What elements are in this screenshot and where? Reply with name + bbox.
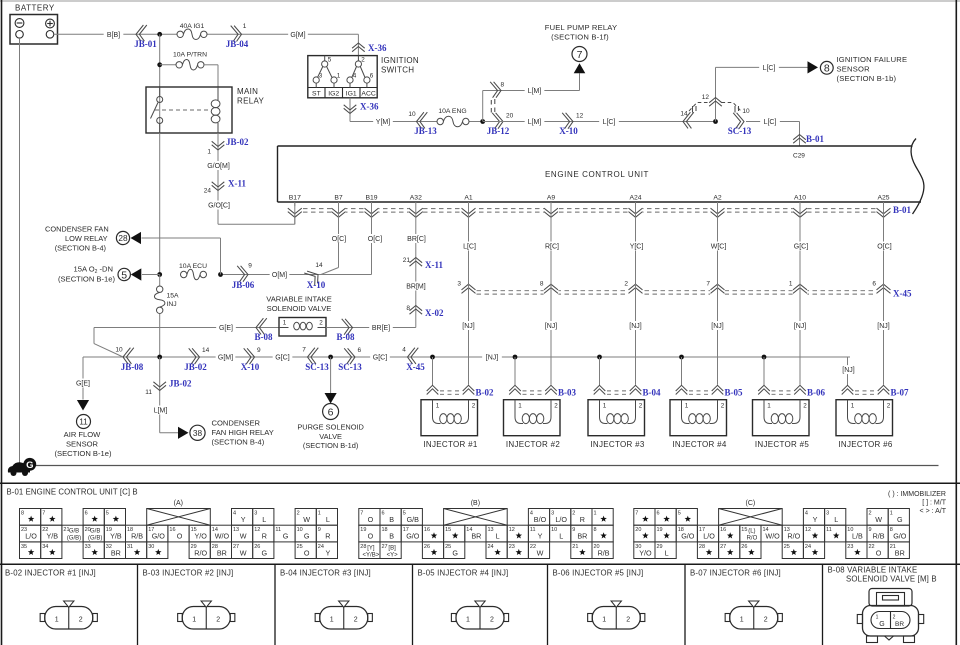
svg-text:G[C]: G[C] [794,244,808,251]
svg-text:A1: A1 [464,195,473,202]
svg-text:FUEL PUMP RELAY: FUEL PUMP RELAY [545,23,618,32]
svg-text:JB-01: JB-01 [134,39,157,49]
svg-text:4: 4 [233,511,236,517]
svg-text:BR: BR [217,548,227,557]
svg-text:O: O [876,548,882,557]
svg-text:G/O[C]: G/O[C] [208,203,230,210]
svg-text:A9: A9 [547,195,556,202]
svg-text:G: G [26,460,33,471]
svg-text:2: 2 [624,281,628,288]
svg-text:L/B: L/B [852,532,863,541]
svg-text:8: 8 [21,511,24,517]
svg-text:W: W [875,515,882,524]
svg-text:10: 10 [297,527,303,533]
svg-text:11: 11 [79,416,88,426]
svg-text:G/O: G/O [152,532,166,541]
svg-text:G: G [897,515,903,524]
svg-text:BR: BR [471,532,481,541]
svg-text:BR[C]: BR[C] [407,236,426,243]
svg-text:L: L [834,515,838,524]
svg-text:PURGE SOLENOID: PURGE SOLENOID [297,423,364,432]
svg-text:ACC: ACC [361,90,375,97]
svg-text:15A O2 -DN: 15A O2 -DN [74,265,114,276]
svg-text:W/O: W/O [215,532,230,541]
svg-text:L[M]: L[M] [528,119,542,126]
svg-text:18: 18 [382,527,388,533]
svg-text:38: 38 [193,428,203,438]
svg-text:< > : A/T: < > : A/T [920,508,947,515]
svg-text:16: 16 [720,527,726,533]
svg-text:23: 23 [847,544,853,550]
svg-text:12: 12 [702,94,710,101]
svg-text:20: 20 [635,527,641,533]
svg-text:B-05 INJECTOR #4 [INJ]: B-05 INJECTOR #4 [INJ] [418,569,509,578]
svg-text:BR[E]: BR[E] [372,325,390,332]
svg-text:21: 21 [403,257,411,264]
svg-text:11: 11 [826,527,832,533]
svg-text:L[C]: L[C] [764,119,777,126]
svg-text:G/O: G/O [406,532,420,541]
svg-text:ENGINE CONTROL UNIT: ENGINE CONTROL UNIT [545,170,649,179]
svg-text:25: 25 [445,544,451,550]
svg-text:L[C]: L[C] [463,244,476,251]
svg-text:SC-13: SC-13 [305,362,329,372]
svg-text:R: R [580,515,585,524]
svg-text:<Y>: <Y> [387,552,399,558]
svg-text:JB-02: JB-02 [169,379,192,389]
svg-text:33: 33 [85,544,91,550]
svg-text:B: B [389,532,394,541]
svg-text:FAN HIGH RELAY: FAN HIGH RELAY [212,428,274,437]
svg-text:14: 14 [202,347,210,354]
svg-text:[NJ]: [NJ] [545,323,558,330]
svg-text:INJECTOR #2: INJECTOR #2 [506,440,561,449]
svg-text:[NJ]: [NJ] [629,323,642,330]
svg-text:5: 5 [403,511,406,517]
svg-text:[NJ]: [NJ] [711,323,724,330]
svg-text:25: 25 [297,544,303,550]
svg-text:7: 7 [360,511,363,517]
svg-text:JB-12: JB-12 [487,126,510,136]
svg-text:A24: A24 [629,195,641,202]
svg-text:8: 8 [540,281,544,288]
svg-text:BATTERY: BATTERY [15,4,55,13]
svg-text:( ) : IMMOBILIZER: ( ) : IMMOBILIZER [888,491,946,498]
svg-text:26: 26 [424,544,430,550]
svg-text:B-04 INJECTOR #3 [INJ]: B-04 INJECTOR #3 [INJ] [280,569,371,578]
svg-text:11: 11 [145,389,152,396]
svg-text:15: 15 [445,527,451,533]
svg-text:[NJ]: [NJ] [462,323,475,330]
svg-text:INJECTOR #4: INJECTOR #4 [672,440,727,449]
svg-text:1: 1 [436,403,440,410]
svg-text:O: O [304,548,310,557]
svg-text:O[C]: O[C] [332,236,346,243]
svg-text:L[M]: L[M] [154,408,168,415]
svg-text:X-10: X-10 [307,280,326,290]
svg-text:2: 2 [472,403,476,410]
svg-text:R/B: R/B [131,532,143,541]
svg-text:R/B: R/B [873,532,885,541]
svg-text:6: 6 [382,511,385,517]
svg-text:28: 28 [699,544,705,550]
svg-text:2: 2 [893,615,896,621]
svg-text:G/B: G/B [69,529,79,535]
svg-text:CONDENSER: CONDENSER [212,419,261,428]
svg-text:4: 4 [805,511,808,517]
svg-text:7: 7 [42,511,45,517]
svg-text:2: 2 [572,511,575,517]
svg-text:(SECTION B-4): (SECTION B-4) [212,438,265,447]
svg-text:6: 6 [872,281,876,288]
svg-text:(B): (B) [471,500,480,507]
svg-text:B-01: B-01 [893,205,912,215]
svg-text:G: G [262,548,268,557]
svg-text:G/O: G/O [681,532,695,541]
svg-text:12: 12 [509,527,515,533]
svg-text:B-03: B-03 [558,388,577,398]
svg-text:2: 2 [216,617,220,624]
svg-text:L: L [559,532,563,541]
svg-text:15: 15 [741,527,747,533]
svg-text:G: G [452,548,458,557]
svg-text:BR: BR [577,532,587,541]
svg-text:MAIN: MAIN [237,87,258,96]
svg-text:L/O: L/O [555,515,567,524]
svg-text:BR: BR [111,548,121,557]
svg-text:15A: 15A [167,293,180,300]
svg-text:L: L [262,515,266,524]
svg-text:1: 1 [243,23,247,30]
svg-text:X-11: X-11 [425,260,444,270]
svg-text:AIR FLOW: AIR FLOW [64,430,102,439]
svg-text:B-06: B-06 [807,388,826,398]
svg-text:34: 34 [42,544,48,550]
svg-text:VALVE: VALVE [319,432,342,441]
svg-text:5: 5 [121,269,127,281]
svg-text:B-07: B-07 [891,388,910,398]
svg-text:C29: C29 [793,153,805,160]
svg-text:G[M]: G[M] [290,32,305,39]
svg-text:JB-13: JB-13 [414,126,437,136]
svg-text:R/O: R/O [194,548,207,557]
svg-text:9: 9 [572,527,575,533]
svg-text:27: 27 [720,544,726,550]
svg-text:[NJ]: [NJ] [877,323,890,330]
svg-text:3: 3 [254,511,257,517]
svg-text:28: 28 [360,544,366,550]
svg-text:28: 28 [118,233,128,243]
svg-text:3: 3 [457,281,461,288]
svg-text:2: 2 [319,320,323,327]
svg-text:[Y]: [Y] [367,545,375,551]
svg-text:12: 12 [254,527,260,533]
svg-text:(C): (C) [746,500,756,507]
svg-text:G[C]: G[C] [373,355,387,362]
svg-text:10A ECU: 10A ECU [179,263,207,270]
svg-text:5: 5 [106,511,109,517]
svg-text:26: 26 [741,544,747,550]
svg-text:4: 4 [402,347,406,354]
svg-text:Y/O: Y/O [639,548,652,557]
svg-text:JB-04: JB-04 [226,39,249,49]
svg-text:2: 2 [869,511,872,517]
svg-text:R/O: R/O [747,536,758,542]
svg-text:1: 1 [876,615,879,621]
svg-text:(SECTION B-1e): (SECTION B-1e) [55,449,112,458]
svg-text:2: 2 [803,403,807,410]
svg-text:4: 4 [530,511,533,517]
svg-text:X-10: X-10 [241,362,260,372]
svg-text:1: 1 [594,511,597,517]
svg-text:Y/B: Y/B [110,532,122,541]
svg-text:2: 2 [639,403,643,410]
svg-text:A10: A10 [794,195,806,202]
svg-text:1: 1 [192,617,196,624]
svg-text:24: 24 [318,544,324,550]
svg-text:B7: B7 [334,195,343,202]
svg-text:G/O[M]: G/O[M] [207,163,230,170]
svg-text:21: 21 [572,544,578,550]
svg-text:[B]: [B] [388,545,396,551]
svg-text:BR[M]: BR[M] [406,284,426,291]
svg-text:B-08 VARIABLE INTAKE: B-08 VARIABLE INTAKE [828,566,918,575]
svg-text:1: 1 [890,511,893,517]
svg-text:G: G [283,532,289,541]
svg-text:W: W [240,532,247,541]
svg-text:IG2: IG2 [328,90,339,97]
svg-text:11: 11 [275,527,281,533]
svg-text:X-45: X-45 [406,362,425,372]
svg-text:8: 8 [824,63,830,75]
svg-text:13: 13 [488,527,494,533]
svg-text:1: 1 [767,403,771,410]
svg-text:X-36: X-36 [360,102,379,112]
svg-text:Y[C]: Y[C] [630,244,644,251]
svg-text:25: 25 [784,544,790,550]
svg-text:3: 3 [826,511,829,517]
svg-text:24: 24 [805,544,811,550]
svg-text:6: 6 [370,73,374,80]
svg-text:1: 1 [207,149,211,156]
svg-text:LOW RELAY: LOW RELAY [65,234,108,243]
svg-text:2: 2 [361,57,365,64]
svg-text:5: 5 [678,511,681,517]
svg-text:SWITCH: SWITCH [381,66,414,75]
svg-text:G[C]: G[C] [275,355,289,362]
svg-text:W: W [537,548,544,557]
svg-text:24: 24 [488,544,494,550]
svg-text:13: 13 [233,527,239,533]
svg-text:10: 10 [742,108,750,115]
svg-text:14: 14 [315,262,323,269]
svg-text:16: 16 [169,527,175,533]
svg-text:3: 3 [551,511,554,517]
svg-text:X-36: X-36 [368,43,387,53]
svg-text:(SECTION B-1d): (SECTION B-1d) [303,441,358,450]
svg-text:7: 7 [635,511,638,517]
svg-text:27: 27 [382,544,388,550]
svg-text:X-11: X-11 [228,179,247,189]
svg-text:X-10: X-10 [559,126,578,136]
svg-text:A25: A25 [877,195,889,202]
svg-text:19: 19 [657,527,663,533]
svg-text:JB-08: JB-08 [121,362,144,372]
svg-text:2: 2 [887,403,891,410]
svg-text:G/O: G/O [893,532,907,541]
svg-text:L: L [665,548,669,557]
svg-text:L[C]: L[C] [763,65,776,72]
svg-text:SC-13: SC-13 [338,362,362,372]
svg-text:IGNITION: IGNITION [381,56,419,65]
svg-text:6: 6 [358,347,362,354]
svg-text:O: O [368,532,374,541]
svg-text:(A): (A) [174,500,183,507]
svg-text:Y: Y [326,548,331,557]
svg-text:B-02: B-02 [476,388,495,398]
svg-text:B-05: B-05 [725,388,744,398]
svg-text:B-01 ENGINE CONTROL UNIT [C] B: B-01 ENGINE CONTROL UNIT [C] B [7,488,138,497]
svg-text:B-03 INJECTOR #2 [INJ]: B-03 INJECTOR #2 [INJ] [143,569,234,578]
svg-text:1: 1 [603,403,607,410]
svg-text:1: 1 [740,617,744,624]
svg-text:L[C]: L[C] [603,119,616,126]
svg-text:X-45: X-45 [893,289,912,299]
svg-text:JB-02: JB-02 [226,137,249,147]
svg-text:X-02: X-02 [425,308,444,318]
svg-text:JB-06: JB-06 [232,280,255,290]
svg-text:2: 2 [721,403,725,410]
svg-text:B[B]: B[B] [107,32,120,39]
svg-text:40A IG1: 40A IG1 [180,23,205,30]
svg-text:16: 16 [424,527,430,533]
svg-text:Y/B: Y/B [47,532,59,541]
svg-text:2: 2 [79,617,83,624]
svg-text:31: 31 [127,544,133,550]
svg-text:2: 2 [764,617,768,624]
svg-text:10A P/TRN: 10A P/TRN [173,52,207,59]
svg-text:VARIABLE INTAKE: VARIABLE INTAKE [266,295,332,304]
svg-text:[NJ]: [NJ] [794,323,807,330]
svg-text:L[M]: L[M] [528,88,542,95]
svg-text:R: R [262,532,267,541]
svg-text:(SECTION B-4): (SECTION B-4) [55,243,106,252]
svg-text:7: 7 [302,347,306,354]
svg-text:10: 10 [551,527,557,533]
svg-text:12: 12 [805,527,811,533]
svg-text:7: 7 [577,49,583,61]
svg-text:5: 5 [328,57,332,64]
svg-text:INJECTOR #6: INJECTOR #6 [838,440,893,449]
svg-text:<Y/B>: <Y/B> [363,552,380,558]
svg-text:SC-13: SC-13 [728,126,752,136]
svg-text:B: B [389,515,394,524]
svg-text:IGNITION FAILURE: IGNITION FAILURE [837,55,908,64]
svg-text:SOLENOID VALVE [M] B: SOLENOID VALVE [M] B [846,575,937,584]
svg-text:INJECTOR #3: INJECTOR #3 [590,440,645,449]
svg-text:30: 30 [148,544,154,550]
svg-text:(SECTION B-1f): (SECTION B-1f) [551,33,609,42]
svg-text:R/O: R/O [787,532,800,541]
svg-text:L/O: L/O [25,532,37,541]
svg-text:R[C]: R[C] [545,244,559,251]
svg-text:1: 1 [55,617,59,624]
svg-text:L: L [496,532,500,541]
svg-text:35: 35 [21,544,27,550]
svg-text:O: O [368,515,374,524]
svg-text:G[E]: G[E] [219,325,233,332]
svg-text:8: 8 [594,527,597,533]
svg-text:8: 8 [406,305,410,312]
svg-text:10: 10 [115,347,123,354]
svg-text:2: 2 [490,617,494,624]
svg-text:[NJ]: [NJ] [842,367,855,374]
svg-text:INJ: INJ [167,301,177,308]
svg-text:INJECTOR #5: INJECTOR #5 [755,440,810,449]
svg-text:29: 29 [657,544,663,550]
svg-text:BR: BR [895,621,904,628]
svg-text:O[C]: O[C] [877,244,891,251]
svg-text:IG1: IG1 [346,90,357,97]
svg-text:BR: BR [895,548,905,557]
svg-text:1: 1 [602,617,606,624]
svg-text:1: 1 [330,617,334,624]
svg-text:9: 9 [257,347,261,354]
svg-text:Y/O: Y/O [195,532,208,541]
svg-text:1: 1 [318,511,321,517]
svg-text:1: 1 [789,281,793,288]
svg-text:W[C]: W[C] [711,244,727,251]
svg-text:(G/B): (G/B) [88,536,102,542]
svg-text:(SECTION B-1b): (SECTION B-1b) [837,74,897,83]
svg-text:(G/B): (G/B) [67,536,81,542]
svg-text:B/O: B/O [534,515,547,524]
svg-text:B19: B19 [365,195,377,202]
svg-text:1: 1 [851,403,855,410]
svg-text:2: 2 [297,511,300,517]
svg-text:[NJ]: [NJ] [486,355,499,362]
svg-text:7: 7 [706,281,710,288]
svg-text:1: 1 [337,73,341,80]
svg-text:CONDENSER FAN: CONDENSER FAN [45,224,109,233]
svg-text:G[M]: G[M] [218,355,233,362]
svg-text:10: 10 [408,111,416,118]
svg-text:2: 2 [626,617,630,624]
svg-text:O[M]: O[M] [272,272,287,279]
svg-text:22: 22 [530,544,536,550]
svg-text:24: 24 [204,188,212,195]
svg-text:INJECTOR #1: INJECTOR #1 [423,440,478,449]
svg-text:14: 14 [680,111,688,118]
svg-text:A32: A32 [410,195,422,202]
svg-text:B-08: B-08 [337,332,356,342]
svg-text:B-02 INJECTOR #1 [INJ]: B-02 INJECTOR #1 [INJ] [5,569,96,578]
svg-text:SENSOR: SENSOR [66,440,99,449]
svg-text:9: 9 [248,263,252,270]
svg-text:R/B: R/B [598,548,610,557]
svg-text:Y: Y [813,515,818,524]
svg-text:22: 22 [869,544,875,550]
svg-text:Y: Y [538,532,543,541]
svg-text:B17: B17 [289,195,301,202]
svg-text:20: 20 [506,113,514,120]
svg-text:2: 2 [554,403,558,410]
svg-text:B-08: B-08 [255,332,274,342]
svg-text:(L): (L) [748,529,755,535]
svg-text:26: 26 [254,544,260,550]
svg-text:ST: ST [312,90,321,97]
svg-text:G/B: G/B [90,529,100,535]
